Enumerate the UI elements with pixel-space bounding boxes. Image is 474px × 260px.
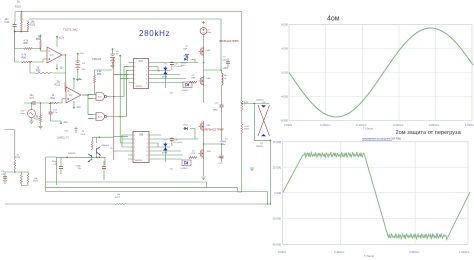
resistor R89 xyxy=(22,61,32,63)
svg-text:7: 7 xyxy=(134,70,135,72)
svg-text:12v: 12v xyxy=(81,69,85,71)
svg-text:C8: C8 xyxy=(175,140,179,142)
ic X84 pins xyxy=(128,135,154,159)
svg-text:C7: C7 xyxy=(223,57,227,59)
svg-text:22: 22 xyxy=(192,75,195,77)
capacitor C11 xyxy=(220,105,224,107)
ground xyxy=(38,127,42,129)
wire xyxy=(14,32,16,49)
ground xyxy=(250,168,254,170)
svg-text:R80: R80 xyxy=(97,73,102,76)
svg-text:5: 5 xyxy=(134,151,135,153)
svg-text:X84: X84 xyxy=(139,133,144,136)
wire xyxy=(254,104,270,141)
wire net1-3 left xyxy=(46,157,57,192)
svg-text:9: 9 xyxy=(134,62,135,64)
svg-text:C10: C10 xyxy=(219,163,224,165)
svg-text:2k: 2k xyxy=(17,1,20,4)
power -12v xyxy=(73,106,75,108)
svg-text:R103: R103 xyxy=(30,23,36,26)
wire xyxy=(31,103,33,110)
svg-text:2N5551: 2N5551 xyxy=(68,153,76,155)
wire xyxy=(20,12,22,23)
svg-text:+VNN: +VNN xyxy=(220,140,227,143)
wire xyxy=(52,55,66,73)
wire rail bus right xyxy=(241,12,243,102)
svg-text:6: 6 xyxy=(147,155,148,157)
svg-text:5: 5 xyxy=(134,78,135,80)
nand gate X25 xyxy=(96,93,105,101)
svg-text:0.800ms: 0.800ms xyxy=(429,123,440,127)
svg-text:7: 7 xyxy=(134,143,135,145)
svg-text:3: 3 xyxy=(146,70,147,72)
wire xyxy=(30,62,36,73)
wire xyxy=(59,99,67,104)
svg-text:-12v: -12v xyxy=(59,66,64,69)
svg-text:50.000: 50.000 xyxy=(273,140,282,144)
ic X41 IR2110 xyxy=(134,59,149,89)
svg-text:4F1B: 4F1B xyxy=(162,152,168,154)
svg-text:3: 3 xyxy=(134,159,135,161)
resistor R111 xyxy=(27,174,29,184)
svg-text:2: 2 xyxy=(146,66,147,68)
svg-text:33u: 33u xyxy=(224,75,228,77)
svg-text:IRFB4227PBF: IRFB4227PBF xyxy=(219,39,239,43)
svg-text:C71: C71 xyxy=(30,97,35,100)
transistor Q2 2N5411 xyxy=(261,134,266,136)
svg-text:22: 22 xyxy=(192,151,195,153)
svg-text:R68: R68 xyxy=(192,78,197,80)
svg-text:4.7n: 4.7n xyxy=(53,112,58,114)
svg-text:2: 2 xyxy=(147,139,148,141)
svg-text:30u: 30u xyxy=(222,144,226,146)
svg-text:22: 22 xyxy=(186,46,189,48)
svg-text:C19: C19 xyxy=(53,109,58,111)
svg-text:IRFB4227PBF: IRFB4227PBF xyxy=(204,128,224,132)
svg-text:US0817: US0817 xyxy=(182,90,190,92)
wire xyxy=(242,103,270,105)
svg-text:T (Secs): T (Secs) xyxy=(364,254,374,258)
op-amp X74 xyxy=(66,87,81,103)
top plot sine curve xyxy=(289,28,473,117)
svg-text:0.400ms: 0.400ms xyxy=(356,123,367,127)
bottom plot y tick labels xyxy=(272,140,282,247)
resistor R108 xyxy=(40,115,42,123)
wire rail B xyxy=(29,19,221,70)
wire xyxy=(92,137,114,140)
svg-text:X85: X85 xyxy=(207,125,212,127)
svg-text:13v: 13v xyxy=(80,53,84,55)
svg-text:X75: X75 xyxy=(50,55,55,57)
svg-text:R85: R85 xyxy=(36,69,41,72)
svg-text:US1J: US1J xyxy=(183,125,188,127)
svg-text:5: 5 xyxy=(146,78,147,80)
wire xyxy=(165,151,167,162)
svg-text:74AC00: 74AC00 xyxy=(92,57,102,61)
svg-text:C9: C9 xyxy=(164,140,167,142)
svg-text:L3: L3 xyxy=(224,78,227,80)
resistor R117 xyxy=(5,203,115,205)
diode US1J lower xyxy=(184,127,187,130)
svg-text:2: 2 xyxy=(244,105,246,107)
mosfet X83 xyxy=(203,76,205,87)
svg-text:R43: R43 xyxy=(244,102,249,104)
svg-text:X83: X83 xyxy=(207,78,212,80)
bottom plot legend net name xyxy=(362,138,401,141)
wire gate to driver xyxy=(114,67,129,117)
ground xyxy=(31,118,33,122)
svg-text:R113: R113 xyxy=(244,129,250,131)
resistor R86 xyxy=(24,48,32,50)
resistor R84 xyxy=(40,41,42,49)
mosfet X82 xyxy=(203,46,205,57)
wire xyxy=(221,85,223,104)
svg-text:0.600ms: 0.600ms xyxy=(393,123,404,127)
svg-text:R118: R118 xyxy=(81,134,87,136)
diode US1J xyxy=(184,58,187,61)
resistor R104 10k xyxy=(20,22,22,31)
svg-text:Q3: Q3 xyxy=(262,102,266,104)
power arrow xyxy=(40,36,42,38)
svg-text:2N5401: 2N5401 xyxy=(256,99,264,101)
feedback bus xyxy=(113,57,115,160)
battery V3 100v xyxy=(202,21,205,24)
ground xyxy=(201,177,205,179)
wire xyxy=(93,115,127,119)
svg-text:V3: V3 xyxy=(116,51,119,53)
svg-text:680n: 680n xyxy=(213,110,219,112)
resistor R110 xyxy=(14,160,16,170)
wire xyxy=(41,38,48,52)
svg-text:4ом: 4ом xyxy=(327,16,340,23)
top plot frame xyxy=(289,25,472,121)
wire xyxy=(15,49,41,63)
ic X41 pins xyxy=(129,63,154,83)
svg-text:9: 9 xyxy=(134,135,135,137)
wire xyxy=(20,31,22,32)
svg-text:1.200ms: 1.200ms xyxy=(459,250,470,254)
svg-text:0.200ms: 0.200ms xyxy=(320,123,331,127)
svg-text:280kHz: 280kHz xyxy=(139,29,170,38)
top plot y tick labels xyxy=(280,23,288,123)
svg-text:25.000: 25.000 xyxy=(273,165,282,169)
power -12v xyxy=(56,67,58,69)
resistor R61 xyxy=(49,102,59,104)
svg-text:X25: X25 xyxy=(98,96,103,98)
svg-text:-8.000: -8.000 xyxy=(280,119,288,123)
svg-text:v3: v3 xyxy=(207,29,210,31)
resistor R79 xyxy=(189,157,197,159)
diode US0817 lower boxed xyxy=(182,160,191,166)
svg-text:3: 3 xyxy=(147,143,148,145)
power label 13v xyxy=(77,54,79,56)
wire xyxy=(24,102,49,104)
svg-text:4: 4 xyxy=(147,147,148,149)
svg-text:4.7u 4=10: 4.7u 4=10 xyxy=(174,142,184,144)
wire xyxy=(65,73,68,92)
svg-text:X74: X74 xyxy=(69,95,74,97)
svg-text:7: 7 xyxy=(147,159,148,161)
svg-text:C21A: C21A xyxy=(76,164,82,167)
op-amp X75 xyxy=(47,47,62,63)
svg-text:-12v: -12v xyxy=(63,121,68,124)
svg-text:C8: C8 xyxy=(175,64,179,66)
svg-text:4F1B: 4F1B xyxy=(162,76,168,78)
svg-text:13v: 13v xyxy=(79,79,83,81)
svg-text:+12v: +12v xyxy=(59,36,65,39)
resistor R112 xyxy=(65,82,67,90)
svg-text:R79: R79 xyxy=(192,153,197,155)
wire xyxy=(165,75,167,88)
svg-text:0.000: 0.000 xyxy=(274,191,281,195)
svg-text:2ом защита от перегруза: 2ом защита от перегруза xyxy=(396,130,462,136)
wire rail VCC xyxy=(15,11,242,13)
resistor R111a xyxy=(20,174,22,184)
wire xyxy=(5,130,15,173)
resistor R66 xyxy=(189,81,197,83)
svg-text:1.000ms: 1.000ms xyxy=(465,123,474,127)
node wire xyxy=(15,31,29,33)
svg-text:R84: R84 xyxy=(36,38,41,41)
svg-text:IR2110: IR2110 xyxy=(136,86,144,88)
wire xyxy=(15,59,47,62)
wire xyxy=(203,70,205,103)
svg-text:C16: C16 xyxy=(5,21,10,24)
svg-text:TL071_MC: TL071_MC xyxy=(63,27,79,31)
wire vertical xyxy=(119,58,121,144)
svg-text:R89: R89 xyxy=(22,56,27,59)
svg-text:4: 4 xyxy=(134,82,135,84)
svg-text:-50.000: -50.000 xyxy=(272,243,282,247)
svg-text:0.800ms: 0.800ms xyxy=(409,250,420,254)
svg-text:+VFF: +VFF xyxy=(223,67,229,70)
svg-text:V19: V19 xyxy=(21,110,26,112)
wire xyxy=(82,95,93,119)
svg-text:640n: 640n xyxy=(223,59,227,61)
svg-text:R117: R117 xyxy=(115,197,121,199)
wire xyxy=(40,103,42,126)
svg-text:R61: R61 xyxy=(51,97,56,100)
svg-text:R86: R86 xyxy=(24,42,29,45)
wire xyxy=(203,121,205,176)
battery V3 xyxy=(112,49,114,51)
wire net3 xyxy=(46,192,268,205)
svg-text:Q2: Q2 xyxy=(260,143,264,145)
svg-text:5: 5 xyxy=(147,151,148,153)
wire xyxy=(14,12,16,23)
source V19 xyxy=(28,110,36,118)
svg-text:10k: 10k xyxy=(117,194,121,196)
svg-text:LM311_TI: LM311_TI xyxy=(57,136,69,140)
wire net2 xyxy=(46,188,242,192)
svg-text:1: 1 xyxy=(147,135,148,137)
svg-text:R110: R110 xyxy=(15,157,21,159)
svg-text:V14: V14 xyxy=(65,130,70,132)
svg-text:X82: X82 xyxy=(207,50,212,52)
svg-text:R108: R108 xyxy=(34,118,40,121)
ground xyxy=(3,181,7,183)
top plot x tick labels xyxy=(284,123,474,131)
svg-text:6: 6 xyxy=(146,82,147,84)
wire xyxy=(27,20,29,32)
svg-text:6: 6 xyxy=(134,74,135,76)
svg-text:4.000: 4.000 xyxy=(281,47,288,51)
svg-text:8.000: 8.000 xyxy=(281,23,288,27)
svg-text:6: 6 xyxy=(134,147,135,149)
svg-text:100v: 100v xyxy=(206,32,212,34)
svg-text:0.400ms: 0.400ms xyxy=(334,250,345,254)
capacitor C16 xyxy=(13,25,17,27)
svg-text:-4.000: -4.000 xyxy=(280,95,288,99)
svg-text:4: 4 xyxy=(134,155,135,157)
svg-text:2k: 2k xyxy=(17,154,20,156)
svg-text:R103: R103 xyxy=(15,6,21,9)
svg-text:R112: R112 xyxy=(55,83,61,86)
svg-text:4=10: 4=10 xyxy=(181,65,186,67)
wire xyxy=(5,171,29,173)
svg-text:T (Secs): T (Secs) xyxy=(363,127,373,131)
svg-text:0.000s: 0.000s xyxy=(278,250,287,254)
svg-text:US0817: US0817 xyxy=(181,168,189,170)
resistor R85 xyxy=(36,72,52,74)
svg-text:R69: R69 xyxy=(184,48,189,50)
bottom plot trapezoid curve xyxy=(283,152,470,240)
diode pair 4F1B lower xyxy=(163,144,167,151)
svg-text:-12v: -12v xyxy=(76,106,81,109)
svg-text:-25.000: -25.000 xyxy=(272,217,282,221)
wire xyxy=(241,134,243,192)
wire box xyxy=(56,157,105,185)
wire xyxy=(241,111,243,124)
inductor L3 xyxy=(221,70,223,73)
resistor R113 xyxy=(241,124,243,134)
wire output xyxy=(270,140,272,204)
svg-text:4: 4 xyxy=(146,74,147,76)
capacitor C19 xyxy=(50,103,52,112)
nand gate X24 xyxy=(96,113,105,121)
svg-text:Q5: Q5 xyxy=(110,148,114,150)
ground xyxy=(110,66,114,68)
svg-text:R111: R111 xyxy=(33,181,39,183)
wire xyxy=(204,34,222,70)
wire xyxy=(92,137,97,160)
capacitor C7 xyxy=(227,58,229,62)
svg-text:8: 8 xyxy=(134,66,135,68)
resistor R43 xyxy=(241,101,243,111)
ic X84 IR2110 xyxy=(133,132,149,163)
svg-text:10k: 10k xyxy=(78,168,81,170)
capacitor C71 xyxy=(33,101,35,105)
svg-text:12v: 12v xyxy=(170,93,174,95)
svg-text:2N5411: 2N5411 xyxy=(256,146,264,148)
battery V4 xyxy=(77,55,79,61)
svg-text:амр: амр xyxy=(21,113,26,115)
svg-text:V4: V4 xyxy=(82,63,85,65)
svg-text:IR2110: IR2110 xyxy=(136,160,144,162)
wire lower driver xyxy=(154,135,199,159)
resistor R80 xyxy=(94,75,96,83)
mosfet X86 xyxy=(203,148,205,159)
svg-text:0.03: 0.03 xyxy=(244,126,249,128)
mosfet X85 xyxy=(203,121,205,132)
diode pair 4F1B xyxy=(163,68,167,75)
power arrow xyxy=(119,56,121,58)
svg-text:3v: 3v xyxy=(116,54,119,56)
wire net1 xyxy=(46,182,207,188)
wire xyxy=(204,143,222,145)
diode US0817 boxed xyxy=(183,82,192,88)
bottom plot frame xyxy=(283,142,468,245)
wire driver xyxy=(154,63,199,83)
wire xyxy=(95,70,113,95)
svg-text:0.000: 0.000 xyxy=(281,71,288,75)
resistor R105 xyxy=(27,22,29,31)
svg-text:10k: 10k xyxy=(34,178,38,180)
power +12v xyxy=(73,79,75,81)
wire xyxy=(21,172,28,186)
svg-text:0.000s: 0.000s xyxy=(284,123,293,127)
resistor R103 xyxy=(20,13,22,21)
capacitor C10 xyxy=(221,144,223,155)
svg-text:12v: 12v xyxy=(170,169,174,171)
svg-text:X24: X24 xyxy=(98,116,103,118)
svg-text:8: 8 xyxy=(134,139,135,141)
bottom plot x tick labels xyxy=(278,250,470,258)
wire xyxy=(93,95,124,99)
svg-text:C22: C22 xyxy=(54,164,59,166)
power -12v xyxy=(60,122,62,124)
svg-text:680n: 680n xyxy=(218,157,224,159)
svg-text:1: 1 xyxy=(146,62,147,64)
wire box top xyxy=(56,156,105,158)
svg-text:2N5401: 2N5401 xyxy=(101,145,109,147)
svg-text:C11: C11 xyxy=(215,102,220,104)
svg-text:C9: C9 xyxy=(164,64,167,66)
power +12v xyxy=(56,37,58,39)
svg-text:X86: X86 xyxy=(207,151,212,153)
wire xyxy=(114,135,128,151)
svg-text:X41: X41 xyxy=(139,60,144,63)
